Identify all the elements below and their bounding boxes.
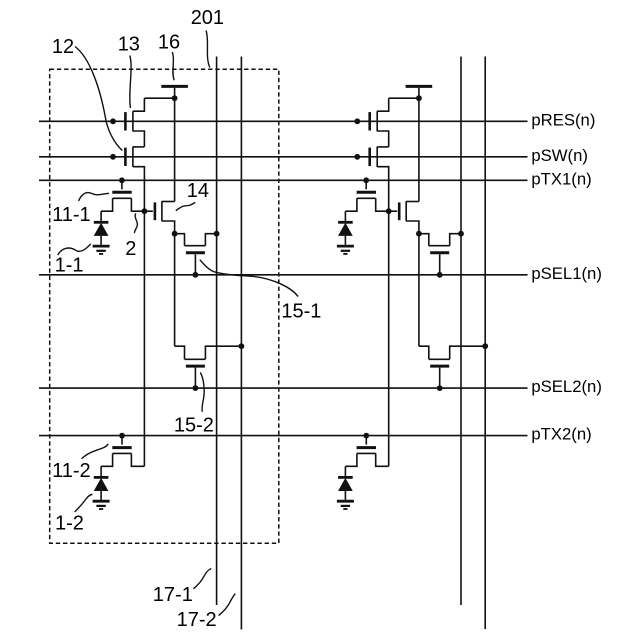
transistor 11-2 transfer: source step to photodiode bbox=[101, 453, 113, 466]
wire floating diffusion vertical (right pixel) bbox=[388, 211, 390, 466]
transistor 12 switch: source step down to node 2 bbox=[133, 167, 145, 212]
photodiode lower (right pixel): cathode bar bbox=[338, 476, 353, 479]
node: select 15-1 gate on pSEL1 bbox=[193, 272, 199, 278]
svg-text:pSEL1(n): pSEL1(n) bbox=[531, 264, 602, 283]
transfer transistor upper (right pixel): gate lead bbox=[365, 180, 367, 189]
node: source follower source (right) bbox=[416, 231, 422, 237]
select transistor upper (right pixel): gate bar bbox=[430, 251, 449, 254]
transistor 11-2 transfer: gate bar bbox=[112, 446, 131, 449]
leader for label 1-1 bbox=[58, 244, 91, 255]
transistor 11-2 transfer: gate lead bbox=[121, 436, 123, 445]
select transistor upper (right pixel): left arm bbox=[419, 234, 429, 246]
transistor 11-1 transfer: gate bar bbox=[112, 191, 131, 194]
select transistor lower (right pixel): left arm bbox=[419, 346, 429, 359]
photodiode 1-2: anode lead bbox=[100, 491, 102, 500]
svg-text:12: 12 bbox=[52, 36, 74, 58]
transistor 15-2 select: channel bar bbox=[185, 358, 206, 360]
wire supply to reset drain (right pixel) bbox=[389, 97, 419, 99]
photodiode upper (right pixel): triangle bbox=[339, 224, 352, 236]
node: switch gate on pSW bbox=[110, 154, 116, 160]
node: floating diffusion (right) bbox=[386, 208, 392, 214]
select transistor upper (right pixel): gate lead bbox=[439, 254, 441, 274]
svg-text:15-1: 15-1 bbox=[281, 300, 321, 322]
svg-text:11-1: 11-1 bbox=[52, 204, 91, 226]
wire source follower source down (right pixel) bbox=[418, 234, 420, 347]
wire source follower source down to select 15-2 bbox=[174, 234, 176, 347]
source follower (right pixel): drain step bbox=[406, 201, 419, 203]
svg-text:1-2: 1-2 bbox=[55, 513, 84, 535]
svg-text:201: 201 bbox=[191, 7, 224, 29]
switch transistor (right pixel): channel bar bbox=[376, 147, 378, 167]
wire pSEL1(n) row line bbox=[39, 274, 528, 276]
svg-text:15-2: 15-2 bbox=[174, 415, 214, 437]
power supply bar 16 bbox=[161, 85, 188, 88]
leader for label 2 bbox=[134, 213, 137, 233]
select transistor upper (right pixel): right arm bbox=[450, 234, 461, 246]
power supply bar (right pixel) bbox=[406, 85, 433, 88]
node: select 15-2 gate on pSEL2 bbox=[193, 385, 199, 391]
transistor 13 reset: channel bar bbox=[132, 111, 134, 131]
wire supply to reset drain bbox=[144, 97, 174, 99]
wire column line 17-1 bbox=[216, 57, 218, 606]
switch transistor (right pixel): gate bar bbox=[368, 148, 371, 166]
source follower (right pixel): channel bar bbox=[405, 201, 407, 221]
transistor 15-1 select: left arm bbox=[175, 234, 185, 246]
wire pTX1(n) row line bbox=[39, 179, 528, 181]
svg-text:pTX1(n): pTX1(n) bbox=[531, 169, 591, 188]
ground (photodiode 1-2) bbox=[93, 500, 110, 503]
node: reset gate on pRES (right) bbox=[354, 118, 360, 124]
node: source follower source bbox=[172, 231, 178, 237]
transistor 14 source follower: channel bar bbox=[161, 201, 163, 221]
svg-text:17-2: 17-2 bbox=[177, 609, 217, 631]
svg-text:16: 16 bbox=[158, 31, 180, 53]
junction dots left pixel bbox=[110, 95, 244, 438]
leader for label 12 bbox=[75, 47, 122, 151]
node: transfer 11-2 gate on pTX2 bbox=[119, 433, 125, 439]
svg-text:13: 13 bbox=[118, 33, 140, 55]
source follower (right pixel): source step bbox=[406, 221, 419, 234]
switch transistor (right pixel): source step bbox=[377, 167, 389, 212]
node: select lower to column (right) bbox=[482, 343, 488, 349]
ground (photodiode 1-1) bbox=[93, 245, 110, 248]
svg-text:14: 14 bbox=[187, 180, 209, 202]
leader for label 1-2 bbox=[75, 494, 93, 512]
transistor 11-2 transfer: channel bar bbox=[113, 452, 132, 454]
ground (right pixel lower photodiode) bbox=[337, 500, 354, 503]
transistor 13 reset: source step to switch drain bbox=[133, 131, 145, 147]
photodiode lower (right pixel): anode lead bbox=[344, 491, 346, 500]
node: select 15-2 to column 17-2 bbox=[239, 343, 245, 349]
wire supply vertical (right pixel) bbox=[418, 98, 420, 201]
svg-text:11-2: 11-2 bbox=[52, 460, 91, 482]
select transistor lower (right pixel): gate lead bbox=[439, 368, 441, 389]
transistor 15-1 select: gate bar bbox=[186, 251, 205, 254]
transistor 15-2 select: gate lead to pSEL2 bbox=[194, 368, 196, 389]
transistor 11-1 transfer: drain step to node 2 bbox=[131, 198, 144, 211]
transistor 13 reset: gate bar bbox=[124, 112, 127, 130]
transistor 15-2 select: gate bar bbox=[186, 365, 205, 368]
transistor 11-1 transfer: source step to photodiode bbox=[101, 198, 113, 211]
node: transfer gate on pTX1 (right) bbox=[363, 177, 369, 183]
node: transfer gate on pTX2 (right) bbox=[363, 433, 369, 439]
transfer transistor upper (right pixel): source step bbox=[345, 198, 357, 211]
photodiode 1-1: anode lead bbox=[100, 235, 102, 244]
wire supply vertical to source follower drain bbox=[174, 98, 176, 201]
leader for label 13 bbox=[130, 56, 131, 109]
leader for label 11-1 bbox=[79, 193, 109, 201]
transfer transistor upper (right pixel): gate bar bbox=[357, 191, 376, 194]
svg-text:17-1: 17-1 bbox=[153, 584, 193, 606]
switch transistor (right pixel): drain step bbox=[377, 146, 389, 148]
node 2 floating diffusion bbox=[142, 208, 148, 214]
pixel cell boundary 201 (dashed box) bbox=[50, 69, 279, 543]
wire pSW(n) row line bbox=[39, 156, 528, 158]
wire right pixel column line (17-2 of next column) bbox=[484, 57, 486, 630]
photodiode 1-2: cathode lead bbox=[100, 466, 102, 476]
leader for label 17-2 bbox=[219, 594, 236, 616]
photodiode lower (right pixel): cathode lead bbox=[344, 466, 346, 476]
transistor 14 source follower: source step bbox=[162, 221, 175, 234]
leader for label 16 bbox=[172, 52, 174, 80]
node: transfer 11-1 gate on pTX1 bbox=[119, 177, 125, 183]
photodiode 1-1: cathode bar bbox=[94, 221, 109, 224]
transfer transistor upper (right pixel): drain step bbox=[376, 198, 389, 211]
transfer transistor lower (right pixel): gate bar bbox=[357, 446, 376, 449]
reset transistor (right pixel): drain step bbox=[377, 98, 389, 111]
transistor 12 switch: channel bar bbox=[132, 147, 134, 167]
ground (right pixel upper photodiode) bbox=[337, 245, 354, 248]
select transistor lower (right pixel): gate bar bbox=[430, 365, 449, 368]
photodiode upper (right pixel): anode lead bbox=[344, 235, 346, 244]
transistor 14 source follower: gate bar bbox=[154, 202, 157, 220]
transfer transistor lower (right pixel): source step bbox=[345, 453, 357, 466]
svg-text:2: 2 bbox=[125, 238, 136, 260]
transfer transistor lower (right pixel): channel bar bbox=[357, 452, 376, 454]
photodiode 1-1: cathode lead bbox=[100, 211, 102, 221]
transfer transistor lower (right pixel): drain step bbox=[376, 453, 389, 466]
wire floating diffusion node 2 vertical bbox=[143, 211, 145, 466]
transistor 14 source follower: drain step bbox=[162, 201, 175, 203]
source follower (right pixel): gate bar bbox=[398, 202, 401, 220]
svg-text:pRES(n): pRES(n) bbox=[531, 110, 595, 129]
wire supply lead (right pixel) bbox=[418, 88, 420, 98]
wire pRES(n) row line bbox=[39, 120, 528, 122]
svg-text:1-1: 1-1 bbox=[55, 254, 84, 276]
node: select upper gate on pSEL1 (right) bbox=[437, 272, 443, 278]
leader for label 17-1 bbox=[193, 569, 211, 589]
transfer transistor lower (right pixel): gate lead bbox=[365, 436, 367, 445]
leader for label 15-1 bbox=[200, 260, 298, 297]
photodiode 1-2: triangle bbox=[95, 479, 108, 491]
node: reset gate on pRES bbox=[110, 118, 116, 124]
transistor 15-2 select: left arm bbox=[175, 346, 185, 359]
node: select lower gate on pSEL2 (right) bbox=[437, 385, 443, 391]
transistor 12 switch: gate bar bbox=[124, 148, 127, 166]
junction dots right pixel bbox=[354, 95, 488, 438]
select transistor upper (right pixel): channel bar bbox=[429, 245, 450, 247]
wire supply lead bbox=[174, 88, 176, 98]
node: select upper to column (right) bbox=[458, 231, 464, 237]
transistor 15-1 select: right arm to column 17-1 bbox=[205, 234, 216, 246]
transistor 12 switch: drain step bbox=[133, 146, 145, 148]
wire pTX2(n) row line bbox=[39, 435, 528, 437]
wire node to source follower gate (right pixel) bbox=[389, 210, 398, 212]
transistor 15-1 select: channel bar bbox=[185, 245, 206, 247]
transistor 11-1 transfer: channel bar bbox=[113, 197, 132, 199]
wire pSEL2(n) row line bbox=[39, 387, 528, 389]
select transistor lower (right pixel): channel bar bbox=[429, 358, 450, 360]
select transistor lower (right pixel): right arm bbox=[450, 346, 486, 359]
node: supply junction (right) bbox=[416, 95, 422, 101]
svg-text:pSW(n): pSW(n) bbox=[531, 146, 588, 165]
wire column line 17-2 bbox=[240, 57, 242, 630]
reset transistor (right pixel): gate bar bbox=[368, 112, 371, 130]
reset transistor (right pixel): channel bar bbox=[376, 111, 378, 131]
photodiode 1-2: cathode bar bbox=[94, 476, 109, 479]
transfer transistor upper (right pixel): channel bar bbox=[357, 197, 376, 199]
photodiode lower (right pixel): triangle bbox=[339, 479, 352, 491]
photodiode upper (right pixel): cathode lead bbox=[344, 211, 346, 221]
transistor 11-1 transfer: gate lead bbox=[121, 180, 123, 189]
transistor 15-1 select: gate lead to pSEL1 bbox=[194, 254, 196, 274]
photodiode 1-1: triangle bbox=[95, 224, 108, 236]
leader for label 201 bbox=[206, 31, 210, 68]
photodiode upper (right pixel): cathode bar bbox=[338, 221, 353, 224]
transistor 11-2 transfer: drain step to node 2 bbox=[131, 453, 144, 466]
node: switch gate on pSW (right) bbox=[354, 154, 360, 160]
wire right pixel column line (17-1 of next column) bbox=[460, 57, 462, 606]
leader for label 14 bbox=[176, 202, 195, 210]
node 2 wire to source follower gate bbox=[144, 210, 153, 212]
node: supply junction bbox=[172, 95, 178, 101]
leader for label 15-2 bbox=[200, 373, 204, 412]
svg-text:pTX2(n): pTX2(n) bbox=[531, 425, 591, 444]
transistor 13 reset: drain step bbox=[133, 98, 145, 111]
svg-text:pSEL2(n): pSEL2(n) bbox=[531, 377, 602, 396]
reset transistor (right pixel): source step bbox=[377, 131, 389, 147]
node: select 15-1 to column 17-1 bbox=[214, 231, 220, 237]
transistor 15-2 select: right arm to column 17-2 bbox=[205, 346, 241, 359]
leader for label 11-2 bbox=[82, 444, 109, 459]
